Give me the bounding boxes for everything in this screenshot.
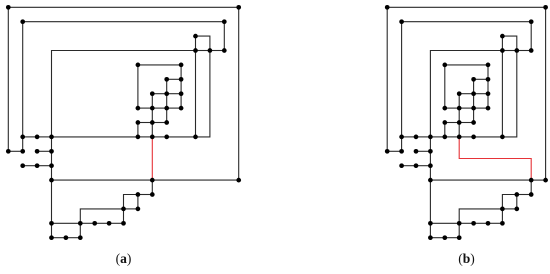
node a (4,16) [64,235,69,240]
wire a edge (13,9)-(14,3) with bend [196,51,210,137]
node a (12,5) [179,77,184,82]
wire b edge (5, 15)-(8, 14) with bend [459,209,502,223]
wire a (9, 4)-(9, 7) [137,65,139,108]
wire b edge (8, 3)-(3, 9) with bend [430,51,502,137]
node b (6,7) [471,106,476,111]
node b (5,15) [457,221,462,226]
wire b (7, 5)-(7, 6) [487,79,489,93]
wire b (6, 9)-(8, 9) [474,136,503,138]
wire a (0, 10)-(1, 10) [8,150,22,152]
wire a (13, 3)-(13, 9) [195,51,197,137]
node a (1,11) [20,163,25,168]
node b (6,15) [471,221,476,226]
wire a (3, 12)-(10, 12) [52,179,153,181]
wire a (10, 8)-(10, 9) [151,123,153,137]
wire b (0, 0)-(0, 10) [386,7,388,151]
wire b (3, 16)-(4, 16) [430,237,444,239]
wire a (3, 9)-(9, 9) [52,136,138,138]
wire a (9, 8)-(10, 8) [138,122,152,124]
node b (3,10) [428,149,433,154]
node b (5,7) [457,106,462,111]
wire a edge (13,3)-(3,9) with bend [52,51,196,137]
wire b (9, 3)-(10, 3) [517,50,531,52]
node b (1,11) [399,163,404,168]
node b (5,16) [457,235,462,240]
wire b (0, 0)-(11, 0) [387,6,545,8]
node a (0,0) [6,5,11,10]
node b (4,16) [442,235,447,240]
wire a (2, 10)-(3, 10) [37,150,51,152]
node a (9,8) [136,120,141,125]
wire b (3, 15)-(5, 15) [430,222,459,224]
wire b (7, 4)-(7, 5) [487,65,489,79]
wire b (5, 7)-(5, 8) [458,108,460,122]
wire a (9, 8)-(9, 9) [137,123,139,137]
wire b (9, 13)-(10, 13) [517,194,531,196]
node a (16,0) [236,5,241,10]
node a (1,10) [20,149,25,154]
wire a (0, 0)-(16, 0) [8,6,238,8]
wire a (1, 1)-(15, 1) [23,21,225,23]
node b (1,1) [399,19,404,24]
wire a (11, 5)-(11, 6) [166,79,168,93]
node a (1,1) [20,19,25,24]
wire b (4, 8)-(5, 8) [445,122,459,124]
wire a (14, 3)-(15, 3) [210,50,224,52]
wire b (10, 1)-(10, 3) [530,22,532,51]
wire a (11, 6)-(11, 7) [166,94,168,108]
wire b (3, 15)-(3, 16) [429,223,431,237]
node b (1,9) [399,135,404,140]
node b (6,9) [471,135,476,140]
node b (6,8) [471,120,476,125]
node b (7,15) [486,221,491,226]
node a (10,13) [150,192,155,197]
wire a (10, 6)-(10, 7) [151,94,153,108]
wire a (3, 15)-(3, 16) [51,223,53,237]
wire b (10, 12)-(11, 12) [531,179,545,181]
wire b (8, 14)-(9, 14) [502,208,516,210]
node b (7,4) [486,63,491,68]
wire a edge (9,13)-(8,14) with bend [124,195,138,209]
node a (11,6) [164,91,169,96]
node a (11,9) [164,135,169,140]
node a (8,15) [121,221,126,226]
node b (9,3) [514,48,519,53]
wire b (6, 7)-(6, 8) [473,108,475,122]
wire a (10, 9)-(11, 9) [152,136,166,138]
wire b (3, 9)-(3, 10) [429,137,431,151]
wire a (9, 13)-(9, 14) [137,195,139,209]
node a (11,7) [164,106,169,111]
node a (10,8) [150,120,155,125]
wire b (6, 6)-(7, 6) [474,93,488,95]
wire b (1, 9)-(1, 10) [401,137,403,151]
wire a (8, 14)-(9, 14) [124,208,138,210]
node a (10,12) [150,178,155,183]
node b (10,1) [529,19,534,24]
wire b (8, 3)-(8, 9) [501,51,503,137]
wire b (5, 6)-(5, 7) [458,94,460,108]
wire b (5, 15)-(5, 16) [458,223,460,237]
node b (10,12) [529,178,534,183]
wire a edge (13,2)-(14,3) with bend [196,36,210,50]
wire b (2, 10)-(3, 10) [416,150,430,152]
wire b (3, 12)-(10, 12) [430,179,531,181]
wire b (8, 14)-(8, 15) [501,209,503,223]
node b (4,4) [442,63,447,68]
node a (3,15) [49,221,54,226]
wire a (4, 16)-(5, 16) [66,237,80,239]
wire a (10, 6)-(11, 6) [152,93,166,95]
node a (9,4) [136,63,141,68]
node a (16,12) [236,178,241,183]
wire b (6, 15)-(7, 15) [474,222,488,224]
wire a (5, 15)-(5, 16) [79,223,81,237]
node a (11,8) [164,120,169,125]
node a (10,7) [150,106,155,111]
node a (3,9) [49,135,54,140]
node b (1,10) [399,149,404,154]
wire b edge (9, 13)-(8, 14) with bend [502,195,516,209]
node a (14,3) [208,48,213,53]
node a (11,5) [164,77,169,82]
wire a (6, 15)-(7, 15) [95,222,109,224]
wire b (3, 10)-(3, 11) [429,151,431,165]
wire b (4, 7)-(5, 7) [445,107,459,109]
wire b (8, 2)-(8, 3) [501,36,503,50]
node a (2,10) [35,149,40,154]
wire a (1, 11)-(2, 11) [23,165,37,167]
wire a (11, 7)-(12, 7) [167,107,181,109]
wire a (10, 7)-(10, 8) [151,108,153,122]
node a (5,16) [78,235,83,240]
node b (3,9) [428,135,433,140]
node a (10,9) [150,135,155,140]
wire a (1, 1)-(1, 9) [22,22,24,137]
wire a (10, 12)-(16, 12) [152,179,238,181]
node a (5,15) [78,221,83,226]
wire b (7, 15)-(8, 15) [488,222,502,224]
wire b (5, 15)-(6, 15) [459,222,473,224]
wire b (2, 9)-(3, 9) [416,136,430,138]
node b (3,15) [428,221,433,226]
node b (3,12) [428,178,433,183]
wire a (11, 6)-(12, 6) [167,93,181,95]
wire a (3, 9)-(3, 10) [51,137,53,151]
wire b (4, 9)-(5, 9) [445,136,459,138]
wire b (5, 9)-(6, 9) [459,136,473,138]
wire b (9, 13)-(9, 14) [516,195,518,209]
wire a (11, 5)-(12, 5) [167,78,181,80]
node a (2,9) [35,135,40,140]
wire a (12, 4)-(12, 5) [180,65,182,79]
node b (0,0) [385,5,390,10]
wire a (13, 3)-(14, 3) [196,50,210,52]
node b (11,0) [543,5,548,10]
wire b (6, 6)-(6, 7) [473,94,475,108]
caption (a) [94,251,154,267]
wire a (3, 11)-(3, 12) [51,166,53,180]
wire b (4, 4)-(4, 7) [444,65,446,108]
node b (10,3) [529,48,534,53]
node a (1,9) [20,135,25,140]
node a (3,16) [49,235,54,240]
wire b edge (8, 9)-(9, 3) with bend [502,51,516,137]
node b (9,13) [514,192,519,197]
node b (0,10) [385,149,390,154]
wire b (0, 10)-(1, 10) [387,150,401,152]
node a (3,10) [49,149,54,154]
wire b (10, 12)-(10, 13) [530,180,532,194]
node b (11,12) [543,178,548,183]
node a (0,10) [6,149,11,154]
node b (2,11) [414,163,419,168]
wire a red edge (10,12)-(10,9) [151,137,153,180]
wire b (4, 4)-(7, 4) [445,64,488,66]
wire a (15, 1)-(15, 3) [223,22,225,51]
node a (13,3) [193,48,198,53]
node b (6,5) [471,77,476,82]
node b (5,6) [457,91,462,96]
wire b (8, 3)-(9, 3) [502,50,516,52]
node b (3,11) [428,163,433,168]
wire a (12, 5)-(12, 6) [180,79,182,93]
wire b (4, 8)-(4, 9) [444,123,446,137]
wire b (6, 7)-(7, 7) [474,107,488,109]
node a (13,9) [193,135,198,140]
node b (8,3) [500,48,505,53]
wire a (12, 6)-(12, 7) [180,94,182,108]
node a (12,7) [179,106,184,111]
wire b (1, 11)-(2, 11) [402,165,416,167]
wire a (3, 12)-(3, 15) [51,180,53,223]
node b (5,8) [457,120,462,125]
node a (15,3) [222,48,227,53]
wire a (13, 2)-(13, 3) [195,36,197,50]
node b (7,6) [486,91,491,96]
node b (3,16) [428,235,433,240]
node a (9,13) [136,192,141,197]
wire a (10, 8)-(11, 8) [152,122,166,124]
wire a (3, 10)-(3, 11) [51,151,53,165]
wire a (9, 4)-(12, 4) [138,64,181,66]
node b (4,7) [442,106,447,111]
wire b (5, 7)-(6, 7) [459,107,473,109]
node b (7,5) [486,77,491,82]
wire a (2, 11)-(3, 11) [37,165,51,167]
wire b (3, 11)-(3, 12) [429,166,431,180]
wire a (2, 9)-(3, 9) [37,136,51,138]
node b (6,6) [471,91,476,96]
node a (3,11) [49,163,54,168]
wire a (1, 9)-(2, 9) [23,136,37,138]
wire b (1, 1)-(10, 1) [402,21,532,23]
wire b (11, 0)-(11, 12) [545,7,547,180]
node a (13,2) [193,34,198,39]
wire a (10, 12)-(10, 13) [151,180,153,194]
graph drawing (a) [6,5,241,240]
wire b (1, 1)-(1, 9) [401,22,403,137]
wire a (10, 7)-(11, 7) [152,107,166,109]
node b (8,9) [500,135,505,140]
wire b (6, 5)-(7, 5) [474,78,488,80]
wire b (6, 5)-(6, 6) [473,79,475,93]
wire a (3, 16)-(4, 16) [52,237,66,239]
node a (2,11) [35,163,40,168]
wire a (9, 7)-(10, 7) [138,107,152,109]
wire a (1, 9)-(1, 10) [22,137,24,151]
wire b (2, 11)-(3, 11) [416,165,430,167]
node b (7,7) [486,106,491,111]
node a (15,1) [222,19,227,24]
node a (12,6) [179,91,184,96]
wire a edge (5,15)-(8,14) with bend [80,209,123,223]
node b (8,14) [500,207,505,212]
wire b (7, 6)-(7, 7) [487,94,489,108]
wire a (11, 7)-(11, 8) [166,108,168,122]
node a (3,12) [49,178,54,183]
node a (6,15) [92,221,97,226]
node b (8,15) [500,221,505,226]
node a (10,6) [150,91,155,96]
node a (9,9) [136,135,141,140]
wire a (0, 0)-(0, 10) [7,7,9,151]
wire b (4, 16)-(5, 16) [445,237,459,239]
node a (9,14) [136,207,141,212]
wire b red edge (5,9)-(10,12) with two bends [459,137,531,180]
node b (2,10) [414,149,419,154]
node a (7,15) [107,221,112,226]
node b (4,9) [442,135,447,140]
node b (10,13) [529,192,534,197]
wire a (16, 0)-(16, 12) [238,7,240,180]
caption (b) [437,251,497,267]
wire a (8, 14)-(8, 15) [123,209,125,223]
node b (9,14) [514,207,519,212]
wire b (5, 8)-(5, 9) [458,123,460,137]
wire b (5, 6)-(6, 6) [459,93,473,95]
wire a (11, 9)-(13, 9) [167,136,196,138]
node a (12,4) [179,63,184,68]
wire a (7, 15)-(8, 15) [109,222,123,224]
node b (2,9) [414,135,419,140]
node b (4,8) [442,120,447,125]
wire a (3, 15)-(5, 15) [52,222,81,224]
wire b (3, 9)-(4, 9) [430,136,444,138]
wire a (9, 9)-(10, 9) [138,136,152,138]
wire b (1, 9)-(2, 9) [402,136,416,138]
node a (8,14) [121,207,126,212]
wire b (5, 8)-(6, 8) [459,122,473,124]
node b (8,2) [500,34,505,39]
node a (9,7) [136,106,141,111]
wire b edge (8, 2)-(9, 3) with bend [502,36,516,50]
wire a (5, 15)-(6, 15) [80,222,94,224]
wire a (9, 13)-(10, 13) [138,194,152,196]
node b (5,9) [457,135,462,140]
graph drawing (b) [385,5,548,240]
wire b (3, 12)-(3, 15) [429,180,431,223]
